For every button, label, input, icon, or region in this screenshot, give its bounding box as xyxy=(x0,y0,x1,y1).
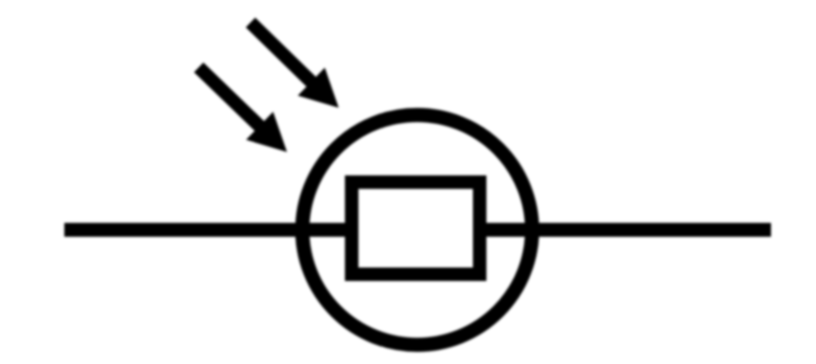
circle envelope xyxy=(302,115,532,345)
light arrow 1 head xyxy=(246,112,287,152)
light arrow 1 shaft xyxy=(199,67,262,128)
wire left xyxy=(64,223,352,237)
light arrow 2 head xyxy=(298,68,339,108)
wire right xyxy=(480,223,771,237)
resistor body R1 xyxy=(352,182,480,274)
light arrow 2 shaft xyxy=(251,23,314,84)
